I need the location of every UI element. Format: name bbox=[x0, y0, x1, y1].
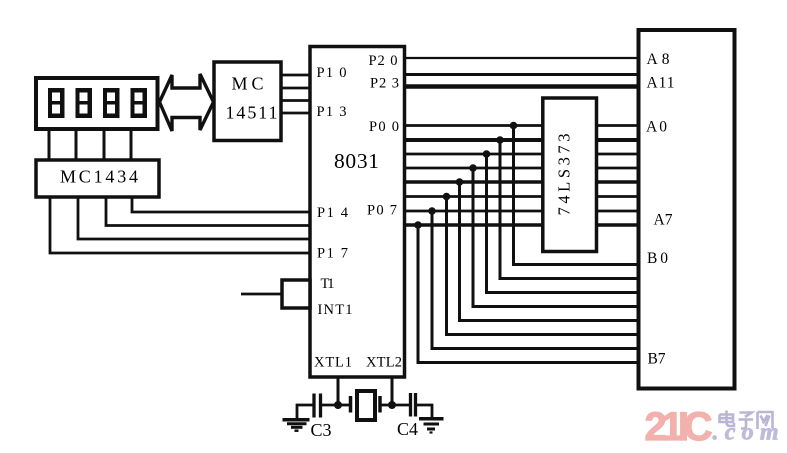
svg-text:A0: A0 bbox=[646, 119, 667, 136]
svg-text:P1 4: P1 4 bbox=[317, 205, 349, 221]
wire bbox=[405, 138, 639, 142]
digit 8 bbox=[48, 88, 65, 118]
wire bbox=[405, 195, 639, 198]
capacitor C4 bbox=[392, 393, 432, 418]
wire bbox=[75, 127, 78, 162]
digit 8 bbox=[103, 88, 120, 118]
wire bbox=[106, 195, 310, 226]
node bbox=[456, 178, 464, 186]
wire bbox=[405, 223, 639, 227]
svg-text:P0 0: P0 0 bbox=[369, 119, 399, 135]
wire bbox=[48, 127, 51, 162]
latch 74LS373 bbox=[543, 98, 597, 252]
wire bbox=[405, 57, 639, 59]
wire bbox=[405, 167, 639, 170]
watermark Chinese 电子网 bbox=[720, 411, 773, 430]
wire XTL2 bbox=[391, 376, 394, 406]
wire bbox=[281, 99, 310, 102]
junction dots on P0 lines bbox=[414, 122, 517, 229]
wire bbox=[500, 140, 639, 279]
digit 8 bbox=[76, 88, 93, 118]
crystal Y1 bbox=[338, 391, 392, 420]
wire bbox=[78, 195, 310, 239]
wire bbox=[487, 154, 639, 293]
data bus drops to B0-B7 bbox=[418, 126, 639, 363]
node bbox=[496, 136, 504, 144]
memory block bbox=[639, 30, 735, 389]
svg-text:74LS373: 74LS373 bbox=[555, 134, 574, 216]
ground bbox=[419, 419, 444, 433]
wire bbox=[460, 182, 639, 321]
bidirectional bus arrow bbox=[160, 74, 214, 131]
driver MC1434 bbox=[36, 160, 159, 197]
wire XTL1 bbox=[337, 376, 340, 406]
node bbox=[510, 122, 518, 130]
wire bbox=[405, 73, 639, 76]
wire bbox=[281, 112, 310, 115]
svg-text:C4: C4 bbox=[397, 419, 418, 439]
wire bbox=[473, 168, 639, 307]
node bbox=[483, 150, 491, 158]
P0 bus lines to A0-A7 bbox=[405, 126, 639, 226]
svg-text:B7: B7 bbox=[648, 351, 666, 368]
ground bbox=[283, 420, 310, 431]
wire bbox=[514, 126, 639, 265]
node bbox=[443, 193, 451, 201]
svg-text:MC: MC bbox=[232, 74, 264, 94]
wire bbox=[50, 195, 310, 253]
node bbox=[469, 164, 477, 172]
node XTL1 bbox=[334, 401, 342, 409]
wire bbox=[241, 293, 282, 296]
svg-text:P0 7: P0 7 bbox=[367, 203, 397, 219]
svg-text:P2 3: P2 3 bbox=[370, 76, 399, 92]
wire bbox=[405, 153, 639, 156]
wire bbox=[130, 127, 133, 162]
wire bbox=[132, 195, 310, 212]
wire bbox=[405, 180, 639, 184]
wire bbox=[281, 87, 310, 90]
svg-text:C3: C3 bbox=[311, 420, 332, 440]
microcontroller 8031 bbox=[310, 47, 405, 378]
svg-text:INT1: INT1 bbox=[318, 302, 353, 318]
svg-text:A11: A11 bbox=[647, 75, 675, 92]
wire bbox=[418, 225, 639, 363]
wire bbox=[103, 127, 106, 162]
node bbox=[414, 221, 422, 229]
wires P2.0-P2.3 to A8-A11 bbox=[405, 58, 639, 87]
svg-text:T1: T1 bbox=[321, 276, 335, 292]
wire bbox=[405, 84, 639, 89]
svg-text:P1 7: P1 7 bbox=[317, 246, 348, 262]
svg-text:P1 0: P1 0 bbox=[317, 65, 347, 81]
svg-text:A7: A7 bbox=[654, 212, 673, 229]
wire bbox=[405, 210, 639, 213]
svg-text:P1 3: P1 3 bbox=[317, 104, 347, 120]
wire bbox=[405, 124, 639, 127]
svg-text:P2 0: P2 0 bbox=[369, 53, 398, 69]
svg-text:XTL1: XTL1 bbox=[314, 355, 352, 371]
wire bbox=[447, 197, 639, 335]
wire bbox=[432, 211, 639, 349]
capacitor C3 bbox=[297, 394, 338, 420]
wire display to MC1434 lines bbox=[49, 127, 131, 162]
decoder MC14511 bbox=[214, 62, 281, 141]
T1 input box bbox=[241, 280, 310, 308]
node bbox=[428, 207, 436, 215]
wires MC1434 to 8031 P1.4-P1.7 bbox=[50, 195, 310, 253]
wires MC14511 to 8031 P1.0-P1.3 bbox=[281, 75, 310, 113]
digit 8 bbox=[131, 88, 148, 118]
svg-text:XTL2: XTL2 bbox=[366, 355, 402, 371]
node XTL2 bbox=[388, 401, 396, 409]
display LED block bbox=[36, 78, 158, 129]
wire bbox=[281, 74, 310, 77]
svg-text:21IC: 21IC bbox=[645, 405, 713, 449]
svg-text:14511: 14511 bbox=[226, 103, 278, 123]
svg-text:8031: 8031 bbox=[334, 149, 379, 173]
